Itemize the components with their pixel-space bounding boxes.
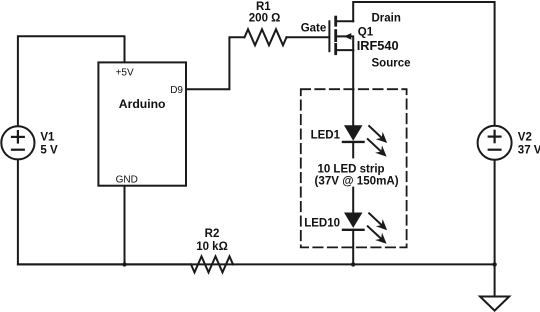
- voltage source V1: [1, 126, 34, 159]
- Arduino module box: [98, 62, 186, 185]
- resistor R1: [245, 29, 287, 45]
- svg-text:V2: V2: [518, 131, 532, 143]
- wire Q1 source to LED1: [352, 50, 354, 125]
- svg-text:5 V: 5 V: [40, 144, 58, 156]
- wire bottom rail: [125, 263, 495, 265]
- svg-text:IRF540: IRF540: [357, 38, 399, 53]
- LED strip dashed enclosure: [301, 89, 407, 247]
- svg-text:LED1: LED1: [311, 129, 341, 141]
- junction node at LED string / rail: [351, 262, 355, 266]
- svg-text:Source: Source: [372, 58, 411, 70]
- svg-text:D9: D9: [170, 85, 183, 96]
- ground: [480, 297, 509, 311]
- svg-text:R1: R1: [256, 1, 271, 13]
- LED LED1: [343, 125, 387, 156]
- wire Arduino D9 to R1: [186, 37, 245, 89]
- wire R1 to Q1 gate: [287, 36, 329, 38]
- svg-text:LED10: LED10: [304, 218, 340, 230]
- junction node at Arduino GND / rail: [122, 262, 126, 266]
- wire Q1 drain to top rail and V2: [353, 2, 494, 126]
- svg-text:Arduino: Arduino: [119, 97, 166, 111]
- resistor R2: [18, 263, 191, 265]
- svg-text:(37V @ 150mA): (37V @ 150mA): [315, 175, 399, 188]
- svg-text:10 kΩ: 10 kΩ: [196, 241, 228, 253]
- wire LED10 to bottom rail: [352, 230, 354, 265]
- svg-text:R2: R2: [205, 228, 220, 240]
- svg-text:Q1: Q1: [358, 26, 374, 38]
- junction node at V2 / ground: [492, 262, 496, 266]
- svg-text:37 V: 37 V: [518, 144, 540, 156]
- wire V1 top to Arduino +5V: [18, 36, 125, 126]
- note 10 LED strip: [313, 158, 401, 186]
- svg-text:Drain: Drain: [372, 13, 401, 25]
- wire LED1 to LED10: [352, 142, 354, 213]
- voltage source V2: [478, 126, 512, 160]
- svg-text:200 Ω: 200 Ω: [249, 12, 281, 24]
- svg-text:Gate: Gate: [301, 22, 327, 34]
- wire V2 bottom to ground rail: [494, 160, 496, 265]
- transistor Q1 (IRF540 N-MOSFET): [329, 17, 353, 54]
- wire Arduino GND down: [124, 186, 126, 265]
- svg-text:V1: V1: [40, 131, 55, 143]
- svg-text:GND: GND: [116, 175, 138, 186]
- svg-text:+5V: +5V: [116, 68, 134, 79]
- wire V1 bottom to ground rail: [18, 159, 125, 264]
- LED LED10: [343, 213, 387, 244]
- wire ground stem: [494, 264, 496, 296]
